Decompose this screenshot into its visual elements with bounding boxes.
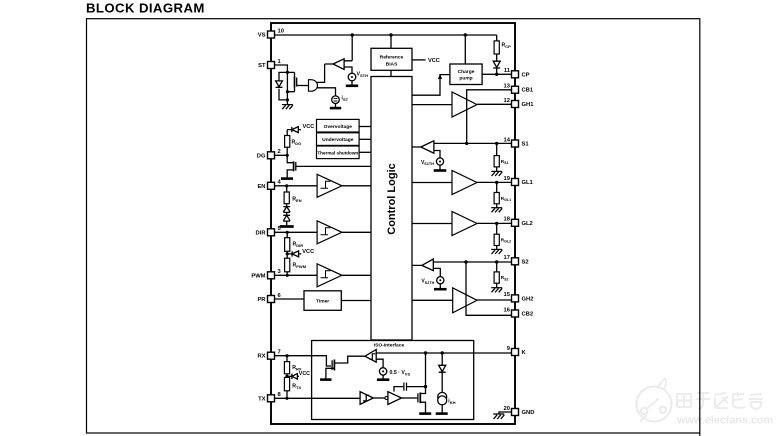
pin 16 CB2 [504, 307, 534, 317]
svg-text:DG: DG [257, 153, 266, 159]
svg-text:CB2: CB2 [522, 312, 534, 318]
source V-S2TH [421, 277, 446, 290]
source I-KH [438, 392, 456, 412]
svg-text:12: 12 [504, 98, 510, 104]
wire DG node [275, 154, 294, 163]
resistor RPWM [285, 258, 307, 275]
wire EN node [275, 184, 318, 187]
ground ST hatched [282, 105, 293, 110]
buffer U-PWM schmitt [317, 264, 371, 287]
resistor REN [284, 186, 302, 207]
watermark elecfans logo [637, 379, 672, 422]
buffer U-TX schmitt [360, 392, 385, 405]
svg-text:RX: RX [257, 354, 265, 360]
resistor RDIR [285, 232, 304, 258]
wire Charge pump to CP pin [482, 73, 512, 76]
svg-text:iST: iST [342, 96, 349, 102]
ground RS1 [491, 171, 502, 176]
diode D-DG to VCC [287, 124, 314, 133]
svg-text:www.elecfans.com: www.elecfans.com [676, 415, 773, 427]
wire GND pin [499, 412, 512, 414]
svg-text:11: 11 [504, 68, 511, 74]
svg-text:Charge: Charge [458, 69, 475, 75]
transistor Q-ST [295, 72, 309, 91]
driver U-GL1 [412, 171, 512, 195]
source V-S1TH [421, 158, 446, 171]
pin 4 EN [257, 180, 281, 190]
pin 18 GL2 [504, 217, 533, 227]
buffer U-ISO1 (to K line) [365, 350, 376, 363]
block Reference BIAS U-REF [371, 48, 412, 70]
diode D-K [439, 353, 446, 392]
ground I-KH [436, 412, 448, 415]
ground EN [280, 225, 294, 228]
svg-text:VCC: VCC [302, 249, 314, 255]
wire Reference BIAS to Control Logic [390, 70, 392, 76]
op-amp U-S2CMP [412, 259, 440, 277]
svg-text:GH2: GH2 [522, 296, 534, 302]
svg-text:ISO-Interface: ISO-Interface [374, 343, 405, 349]
block Thermal shutdown [317, 146, 372, 159]
svg-text:19: 19 [504, 176, 511, 182]
block Charge pump U-CP [450, 64, 482, 85]
pin 17 S2 [504, 255, 529, 265]
svg-text:BIAS: BIAS [386, 61, 398, 67]
wire CB1 to driver [467, 90, 512, 144]
resistor RCP [494, 35, 511, 61]
wire Control Logic to Charge pump [412, 74, 450, 95]
pin 15 GH2 [504, 292, 534, 302]
ground RGL2 [491, 249, 502, 254]
driver U-GH2 [412, 288, 512, 313]
svg-text:2: 2 [278, 149, 281, 155]
pin 12 GH1 [504, 98, 535, 108]
inverter U-TXINV [385, 392, 417, 405]
svg-text:RTX: RTX [292, 384, 301, 390]
op-amp U-S1CMP [412, 141, 440, 158]
diode D-RX to VCC [287, 371, 310, 379]
capacitor C-FB [394, 383, 427, 392]
svg-text:RDG: RDG [292, 140, 302, 146]
watermark CJK text [677, 392, 763, 409]
wire S1 net [434, 142, 512, 145]
resistor RGL2 [494, 223, 511, 249]
svg-text:DIR: DIR [256, 230, 267, 236]
resistor RRX [284, 356, 302, 378]
wire RX node [275, 354, 332, 366]
svg-text:REN: REN [292, 197, 301, 203]
svg-text:Thermal shutdown: Thermal shutdown [317, 150, 358, 155]
svg-text:VSTH: VSTH [357, 72, 369, 78]
svg-text:ST: ST [258, 63, 266, 69]
svg-text:iKH: iKH [448, 399, 455, 405]
buffer U-EN schmitt [317, 174, 371, 197]
block Overvoltage [317, 119, 372, 132]
svg-text:RCP: RCP [502, 43, 512, 49]
svg-text:16: 16 [504, 307, 511, 313]
resistor RS2 [494, 262, 508, 288]
pin 10 VS [258, 28, 284, 38]
ST start-up circuit: wire from ST pin [275, 65, 295, 105]
svg-text:13: 13 [504, 84, 511, 90]
transistor Q-DG [287, 161, 371, 177]
wire S2 net [433, 260, 511, 315]
source 0.5 VVS [376, 359, 410, 380]
pin 1 ST [258, 59, 281, 69]
svg-text:15: 15 [504, 292, 511, 298]
pin 13 CB1 [504, 84, 534, 94]
buffer U-DIR schmitt [317, 221, 371, 244]
svg-text:18: 18 [504, 217, 511, 223]
svg-text:17: 17 [504, 255, 510, 261]
diode D-CP [493, 61, 500, 74]
svg-text:PWM: PWM [251, 273, 265, 279]
resistor RDG [285, 130, 302, 156]
op-amp U-STCMP (VS comparator) [325, 59, 353, 73]
wire K net [376, 351, 511, 354]
svg-text:VCC: VCC [299, 371, 310, 377]
transistor Q-RX (ISO input) [326, 356, 365, 378]
diode D-DIR to VCC [287, 249, 314, 257]
svg-text:10: 10 [278, 28, 284, 34]
pin 14 S1 [504, 137, 530, 147]
block Undervoltage [317, 133, 372, 146]
driver U-GH1 [412, 92, 512, 117]
gate U-ST (D shape) [309, 80, 318, 92]
svg-text:7: 7 [278, 350, 281, 356]
svg-text:PR: PR [257, 297, 266, 303]
svg-text:RDIR: RDIR [293, 242, 304, 248]
diode D-EN2 zener [283, 212, 290, 225]
pin 2 DG [257, 149, 281, 159]
svg-text:GND: GND [522, 410, 535, 416]
svg-text:CB1: CB1 [522, 88, 534, 94]
ground GND hatched [493, 414, 504, 419]
svg-text:pump: pump [459, 77, 472, 82]
wire TX into ISO [275, 397, 361, 399]
driver U-GL2 [412, 212, 512, 236]
source I-ST [330, 96, 349, 109]
svg-text:Control Logic: Control Logic [386, 163, 398, 235]
svg-text:GL2: GL2 [522, 221, 533, 227]
svg-text:0.5 · VVS: 0.5 · VVS [390, 370, 411, 376]
ground Q-TX source [419, 412, 431, 415]
ground Q-RX source [320, 378, 331, 381]
block Control Logic U-CTRL [371, 77, 412, 341]
source V-STH [346, 72, 368, 86]
ground RS2 [491, 288, 502, 293]
svg-text:BLOCK DIAGRAM: BLOCK DIAGRAM [86, 1, 205, 16]
svg-text:20: 20 [504, 406, 510, 412]
wire comparator output to gate [317, 64, 336, 96]
pin 8 TX [258, 392, 281, 402]
svg-text:VS: VS [258, 33, 266, 39]
resistor RTX [284, 377, 301, 400]
block ISO-Interface [312, 341, 474, 420]
transistor Q-TX [418, 353, 426, 413]
pin 6 PR [257, 293, 281, 303]
svg-text:Timer: Timer [316, 299, 329, 305]
wire PWM node [275, 274, 318, 277]
pin 19 GL1 [504, 176, 534, 186]
pin 20 GND [504, 406, 535, 416]
wire VS rail [275, 33, 497, 64]
svg-text:TX: TX [258, 396, 266, 402]
svg-text:EN: EN [257, 184, 265, 190]
wire VCC tick from Reference BIAS [412, 58, 440, 64]
ground Q-DG source [281, 177, 293, 180]
svg-text:Overvoltage: Overvoltage [324, 124, 353, 130]
svg-text:S2: S2 [522, 259, 529, 265]
block Timer [304, 291, 371, 311]
IC boundary [271, 23, 515, 424]
svg-text:VCC: VCC [428, 58, 440, 64]
svg-text:RPWM: RPWM [293, 263, 307, 269]
svg-text:Undervoltage: Undervoltage [322, 137, 354, 143]
wire PR to Timer [275, 298, 305, 300]
pin 11 CP [504, 68, 530, 78]
pin 3 PWM [251, 269, 281, 279]
ground RGL1 [491, 208, 502, 213]
svg-text:Reference: Reference [380, 54, 404, 60]
diode D-ST parallel [276, 72, 288, 100]
svg-text:VCC: VCC [303, 124, 315, 130]
svg-text:14: 14 [504, 137, 511, 143]
wire DIR node [275, 231, 318, 234]
pin 7 RX [257, 350, 280, 360]
resistor RGL1 [494, 182, 511, 207]
pin 5 DIR [256, 226, 282, 236]
pin 9 K [507, 346, 527, 356]
diode D-EN1 zener [283, 207, 290, 213]
svg-text:GL1: GL1 [522, 180, 534, 186]
svg-text:CP: CP [522, 72, 530, 78]
svg-text:S1: S1 [522, 142, 530, 148]
resistor RS1 [494, 143, 508, 171]
svg-text:GH1: GH1 [522, 102, 535, 108]
